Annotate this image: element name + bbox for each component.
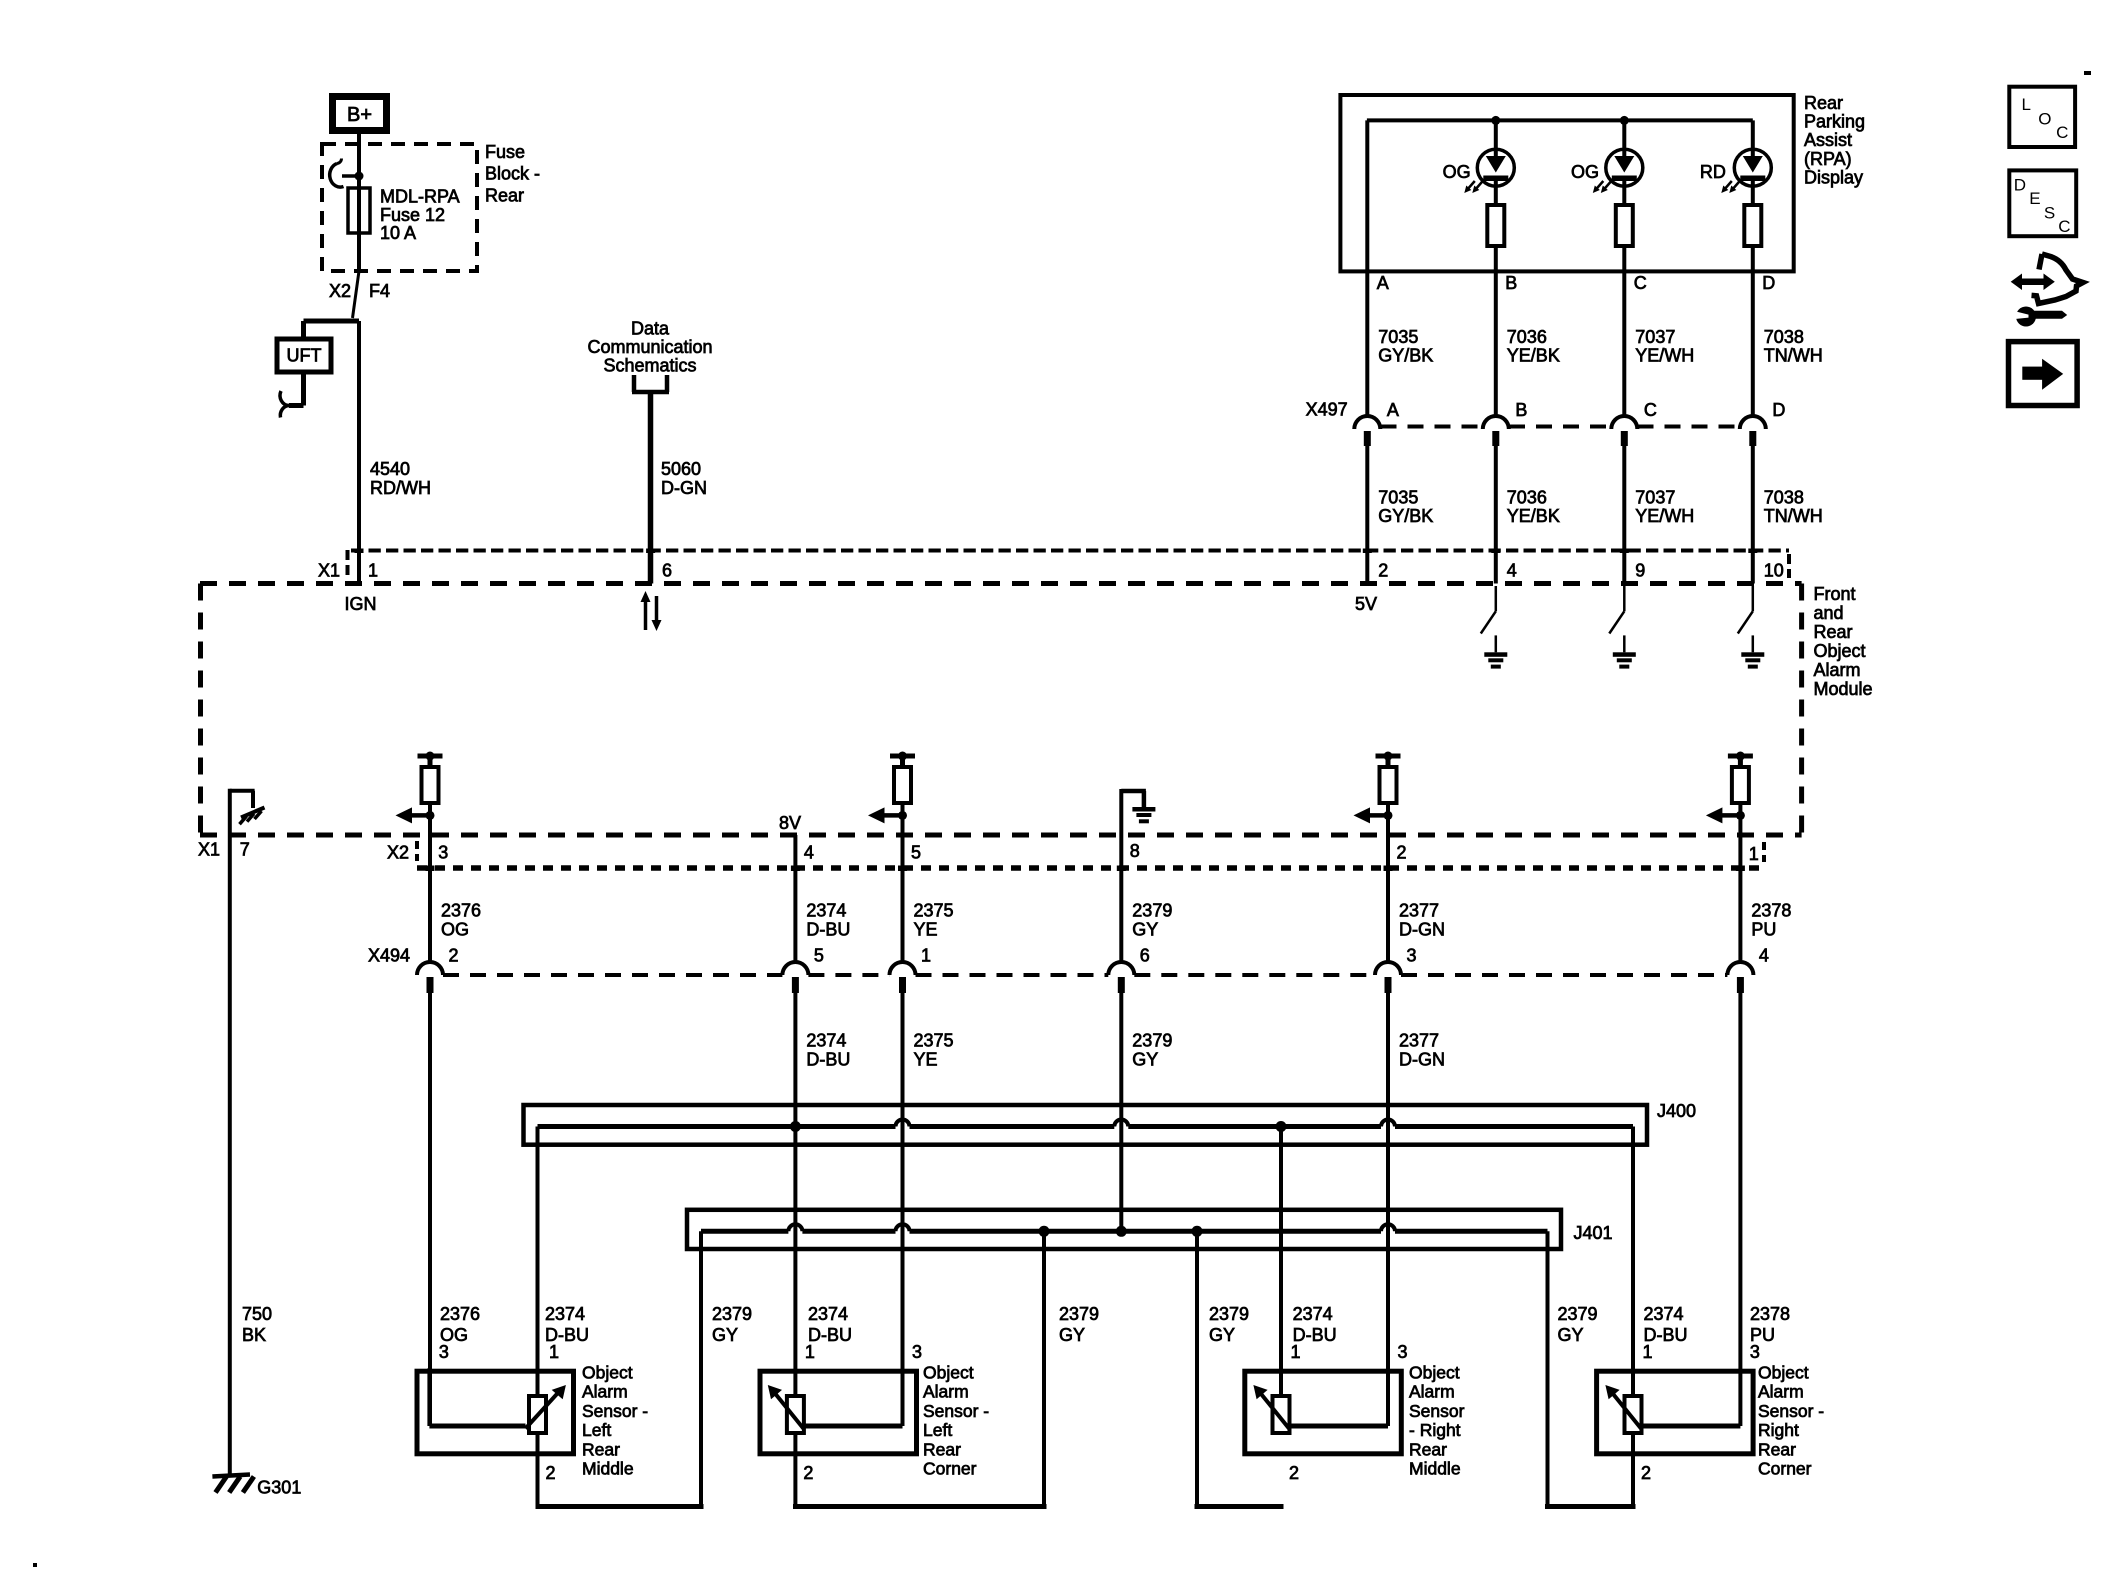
svg-text:10: 10 xyxy=(1764,561,1784,581)
svg-text:Fuse 12: Fuse 12 xyxy=(380,205,445,225)
svg-text:2379: 2379 xyxy=(1059,1304,1099,1324)
svg-text:Sensor -: Sensor - xyxy=(1758,1401,1824,1421)
svg-text:B: B xyxy=(1505,273,1517,293)
svg-text:7035: 7035 xyxy=(1378,488,1418,508)
svg-text:2374: 2374 xyxy=(545,1304,585,1324)
svg-text:1: 1 xyxy=(921,946,931,966)
svg-text:5: 5 xyxy=(814,946,824,966)
svg-text:Object: Object xyxy=(1409,1363,1460,1383)
svg-text:E: E xyxy=(2029,189,2040,208)
svg-text:7035: 7035 xyxy=(1378,327,1418,347)
svg-text:Rear: Rear xyxy=(582,1439,620,1459)
svg-text:GY: GY xyxy=(712,1325,738,1345)
svg-text:Module: Module xyxy=(1814,679,1873,699)
svg-text:7: 7 xyxy=(240,840,250,860)
svg-text:6: 6 xyxy=(662,561,672,581)
svg-text:2: 2 xyxy=(1289,1463,1299,1483)
svg-text:YE: YE xyxy=(914,920,938,940)
svg-text:Assist: Assist xyxy=(1804,130,1852,150)
svg-text:TN/WH: TN/WH xyxy=(1764,506,1823,526)
svg-text:X1: X1 xyxy=(198,840,220,860)
svg-text:GY: GY xyxy=(1132,920,1158,940)
svg-text:5060: 5060 xyxy=(661,459,701,479)
svg-text:2374: 2374 xyxy=(806,1031,846,1051)
svg-text:OG: OG xyxy=(1443,162,1471,182)
svg-text:O: O xyxy=(2038,110,2051,129)
svg-text:OG: OG xyxy=(1571,162,1599,182)
svg-text:A: A xyxy=(1387,400,1399,420)
svg-text:GY/BK: GY/BK xyxy=(1378,506,1433,526)
svg-text:D-GN: D-GN xyxy=(1399,1050,1445,1070)
svg-text:4: 4 xyxy=(1759,946,1769,966)
svg-text:7037: 7037 xyxy=(1635,327,1675,347)
svg-text:F4: F4 xyxy=(369,281,390,301)
svg-text:Rear: Rear xyxy=(923,1439,961,1459)
svg-text:8V: 8V xyxy=(779,813,801,833)
svg-text:7038: 7038 xyxy=(1764,327,1804,347)
svg-text:Middle: Middle xyxy=(582,1459,634,1479)
svg-text:YE/WH: YE/WH xyxy=(1635,506,1694,526)
svg-text:Rear: Rear xyxy=(1814,622,1853,642)
svg-text:Sensor -: Sensor - xyxy=(923,1401,989,1421)
svg-text:Rear: Rear xyxy=(1409,1439,1447,1459)
svg-text:5: 5 xyxy=(911,843,921,863)
svg-text:Communication: Communication xyxy=(587,337,712,357)
svg-text:Fuse: Fuse xyxy=(485,142,525,162)
svg-text:Front: Front xyxy=(1814,584,1856,604)
svg-text:1: 1 xyxy=(805,1342,815,1362)
svg-text:C: C xyxy=(1644,400,1657,420)
svg-text:RD/WH: RD/WH xyxy=(370,478,431,498)
svg-text:Alarm: Alarm xyxy=(923,1382,969,1402)
svg-text:2374: 2374 xyxy=(806,901,846,921)
svg-text:Alarm: Alarm xyxy=(582,1382,628,1402)
svg-text:Left: Left xyxy=(582,1420,611,1440)
svg-text:2374: 2374 xyxy=(808,1304,848,1324)
svg-text:1: 1 xyxy=(549,1342,559,1362)
svg-text:GY: GY xyxy=(1059,1325,1085,1345)
svg-text:Object: Object xyxy=(582,1363,633,1383)
svg-text:L: L xyxy=(2022,95,2031,114)
svg-text:6: 6 xyxy=(1140,946,1150,966)
svg-text:X497: X497 xyxy=(1306,400,1348,420)
svg-text:Object: Object xyxy=(1814,641,1866,661)
svg-text:Alarm: Alarm xyxy=(1409,1382,1455,1402)
svg-text:10 A: 10 A xyxy=(380,223,416,243)
svg-text:1: 1 xyxy=(368,561,378,581)
svg-text:Rear: Rear xyxy=(485,186,524,206)
svg-text:D: D xyxy=(1772,400,1785,420)
svg-text:2: 2 xyxy=(1641,1463,1651,1483)
svg-text:- Right: - Right xyxy=(1409,1420,1461,1440)
svg-text:and: and xyxy=(1814,603,1844,623)
svg-text:GY: GY xyxy=(1132,1050,1158,1070)
svg-text:2: 2 xyxy=(1397,843,1407,863)
svg-text:UFT: UFT xyxy=(287,346,322,366)
svg-text:7036: 7036 xyxy=(1507,327,1547,347)
svg-text:D-BU: D-BU xyxy=(806,1050,850,1070)
svg-text:GY/BK: GY/BK xyxy=(1378,346,1433,366)
svg-text:D: D xyxy=(2014,176,2026,195)
svg-text:Middle: Middle xyxy=(1409,1459,1461,1479)
svg-text:MDL-RPA: MDL-RPA xyxy=(380,187,460,207)
svg-text:YE/BK: YE/BK xyxy=(1507,506,1560,526)
svg-text:A: A xyxy=(1377,273,1389,293)
svg-text:YE: YE xyxy=(914,1050,938,1070)
svg-text:4540: 4540 xyxy=(370,459,410,479)
svg-text:2374: 2374 xyxy=(1644,1304,1684,1324)
svg-text:1: 1 xyxy=(1643,1342,1653,1362)
svg-text:G301: G301 xyxy=(257,1478,301,1498)
svg-text:5V: 5V xyxy=(1355,594,1377,614)
svg-text:2379: 2379 xyxy=(1558,1304,1598,1324)
svg-text:Alarm: Alarm xyxy=(1758,1382,1804,1402)
svg-text:2378: 2378 xyxy=(1751,901,1791,921)
svg-text:3: 3 xyxy=(912,1342,922,1362)
svg-text:2376: 2376 xyxy=(441,901,481,921)
svg-text:2378: 2378 xyxy=(1750,1304,1790,1324)
svg-text:2376: 2376 xyxy=(440,1304,480,1324)
svg-text:BK: BK xyxy=(242,1325,266,1345)
svg-text:Sensor: Sensor xyxy=(1409,1401,1465,1421)
svg-text:2: 2 xyxy=(546,1463,556,1483)
svg-text:C: C xyxy=(2056,123,2068,142)
svg-text:Parking: Parking xyxy=(1804,112,1865,132)
svg-text:S: S xyxy=(2044,203,2055,222)
svg-text:2374: 2374 xyxy=(1293,1304,1333,1324)
svg-text:2377: 2377 xyxy=(1399,901,1439,921)
svg-text:Display: Display xyxy=(1804,167,1863,187)
svg-text:OG: OG xyxy=(441,920,469,940)
svg-text:Sensor -: Sensor - xyxy=(582,1401,648,1421)
svg-text:4: 4 xyxy=(804,843,814,863)
svg-text:7037: 7037 xyxy=(1635,488,1675,508)
svg-text:3: 3 xyxy=(1750,1342,1760,1362)
svg-text:IGN: IGN xyxy=(344,594,376,614)
svg-text:B+: B+ xyxy=(347,104,372,126)
svg-text:Rear: Rear xyxy=(1758,1439,1796,1459)
svg-text:4: 4 xyxy=(1507,561,1517,581)
svg-text:7038: 7038 xyxy=(1764,488,1804,508)
svg-text:Schematics: Schematics xyxy=(603,355,696,375)
svg-text:2379: 2379 xyxy=(1132,901,1172,921)
svg-text:X494: X494 xyxy=(368,946,410,966)
svg-text:2: 2 xyxy=(803,1463,813,1483)
svg-text:J400: J400 xyxy=(1657,1101,1696,1121)
svg-text:YE/WH: YE/WH xyxy=(1635,346,1694,366)
svg-text:Data: Data xyxy=(631,319,670,339)
svg-text:Right: Right xyxy=(1758,1420,1799,1440)
svg-text:3: 3 xyxy=(1407,946,1417,966)
svg-text:2375: 2375 xyxy=(914,901,954,921)
svg-text:1: 1 xyxy=(1291,1342,1301,1362)
svg-text:PU: PU xyxy=(1751,920,1776,940)
svg-text:D-BU: D-BU xyxy=(806,920,850,940)
svg-text:Corner: Corner xyxy=(923,1459,977,1479)
svg-text:X2: X2 xyxy=(387,843,409,863)
svg-text:Object: Object xyxy=(1758,1363,1809,1383)
svg-text:D: D xyxy=(1762,273,1775,293)
svg-text:C: C xyxy=(2058,217,2070,236)
svg-text:3: 3 xyxy=(1398,1342,1408,1362)
svg-text:2379: 2379 xyxy=(712,1304,752,1324)
svg-text:Alarm: Alarm xyxy=(1814,660,1861,680)
svg-text:D-GN: D-GN xyxy=(661,478,707,498)
svg-text:3: 3 xyxy=(438,843,448,863)
svg-text:GY: GY xyxy=(1209,1325,1235,1345)
svg-text:B: B xyxy=(1515,400,1527,420)
svg-text:3: 3 xyxy=(439,1342,449,1362)
svg-text:Object: Object xyxy=(923,1363,974,1383)
svg-text:2379: 2379 xyxy=(1132,1031,1172,1051)
svg-text:RD: RD xyxy=(1700,162,1726,182)
svg-text:2: 2 xyxy=(449,946,459,966)
svg-text:2: 2 xyxy=(1378,561,1388,581)
svg-text:YE/BK: YE/BK xyxy=(1507,346,1560,366)
svg-text:7036: 7036 xyxy=(1507,488,1547,508)
svg-text:J401: J401 xyxy=(1574,1223,1613,1243)
svg-text:Block -: Block - xyxy=(485,164,540,184)
svg-text:Left: Left xyxy=(923,1420,952,1440)
svg-text:C: C xyxy=(1634,273,1647,293)
svg-text:X2: X2 xyxy=(329,281,351,301)
svg-text:1: 1 xyxy=(1749,844,1759,864)
svg-text:X1: X1 xyxy=(318,561,340,581)
svg-text:2379: 2379 xyxy=(1209,1304,1249,1324)
svg-text:2377: 2377 xyxy=(1399,1031,1439,1051)
svg-text:9: 9 xyxy=(1635,561,1645,581)
svg-text:GY: GY xyxy=(1558,1325,1584,1345)
svg-text:2375: 2375 xyxy=(914,1031,954,1051)
svg-text:(RPA): (RPA) xyxy=(1804,149,1852,169)
svg-text:750: 750 xyxy=(242,1304,272,1324)
svg-text:Rear: Rear xyxy=(1804,93,1843,113)
svg-text:TN/WH: TN/WH xyxy=(1764,346,1823,366)
svg-text:Corner: Corner xyxy=(1758,1459,1812,1479)
svg-text:8: 8 xyxy=(1130,841,1140,861)
svg-text:D-GN: D-GN xyxy=(1399,920,1445,940)
